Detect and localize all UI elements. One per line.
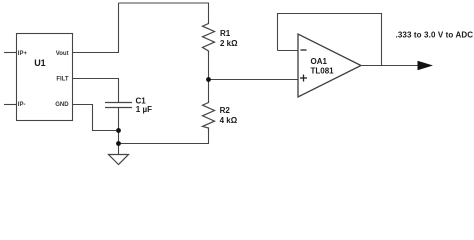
svg-text:U1: U1 — [34, 58, 46, 68]
svg-text:FILT: FILT — [56, 76, 69, 82]
junction ground node dot — [116, 141, 121, 146]
capacitor C1 bottom plate — [105, 107, 132, 109]
svg-text:C1: C1 — [136, 96, 147, 105]
wire R1 to node A — [208, 54, 210, 80]
svg-text:R1: R1 — [220, 29, 231, 38]
wire node B to ground node — [118, 131, 120, 144]
op-amp output wire — [361, 65, 419, 67]
svg-text:OA1: OA1 — [311, 57, 328, 66]
wire top rail to R1 — [119, 3, 209, 22]
svg-text:2 kΩ: 2 kΩ — [220, 39, 238, 48]
svg-text:IP-: IP- — [18, 102, 26, 108]
wire node A to op-amp noninverting input — [209, 79, 299, 81]
svg-text:4 kΩ: 4 kΩ — [220, 116, 238, 125]
svg-text:1 µF: 1 µF — [136, 105, 152, 114]
wire node A to R2 — [208, 80, 210, 101]
resistor R1 — [203, 22, 215, 54]
svg-text:R2: R2 — [220, 106, 231, 115]
junction node B dot — [116, 128, 121, 133]
resistor R2 — [203, 101, 215, 131]
wire C1 to node B — [118, 108, 120, 131]
capacitor C1 top plate — [105, 102, 132, 104]
wire GND pin to node B — [73, 105, 119, 131]
op-amp OA1 triangle — [298, 34, 361, 97]
svg-text:GND: GND — [55, 102, 69, 108]
svg-text:Vout: Vout — [56, 51, 69, 57]
svg-text:IP+: IP+ — [18, 51, 28, 57]
svg-text:TL081: TL081 — [311, 67, 335, 76]
pin IP- stub — [4, 104, 17, 106]
wire R2 to ground rail — [119, 131, 209, 144]
feedback wire — [278, 14, 382, 66]
op-amp plus sign — [300, 77, 307, 79]
IC U1 body — [17, 34, 73, 121]
op-amp inverting input wire — [278, 50, 299, 52]
pin IP+ stub — [4, 52, 17, 54]
wire FILT to C1 — [73, 79, 119, 103]
junction node A dot — [206, 77, 211, 82]
ground symbol — [118, 144, 120, 155]
wire Vout to top rail — [73, 3, 119, 53]
output arrowhead — [418, 61, 434, 71]
op-amp minus sign — [301, 49, 307, 51]
svg-text:.333 to 3.0 V to ADC: .333 to 3.0 V to ADC — [396, 31, 474, 40]
